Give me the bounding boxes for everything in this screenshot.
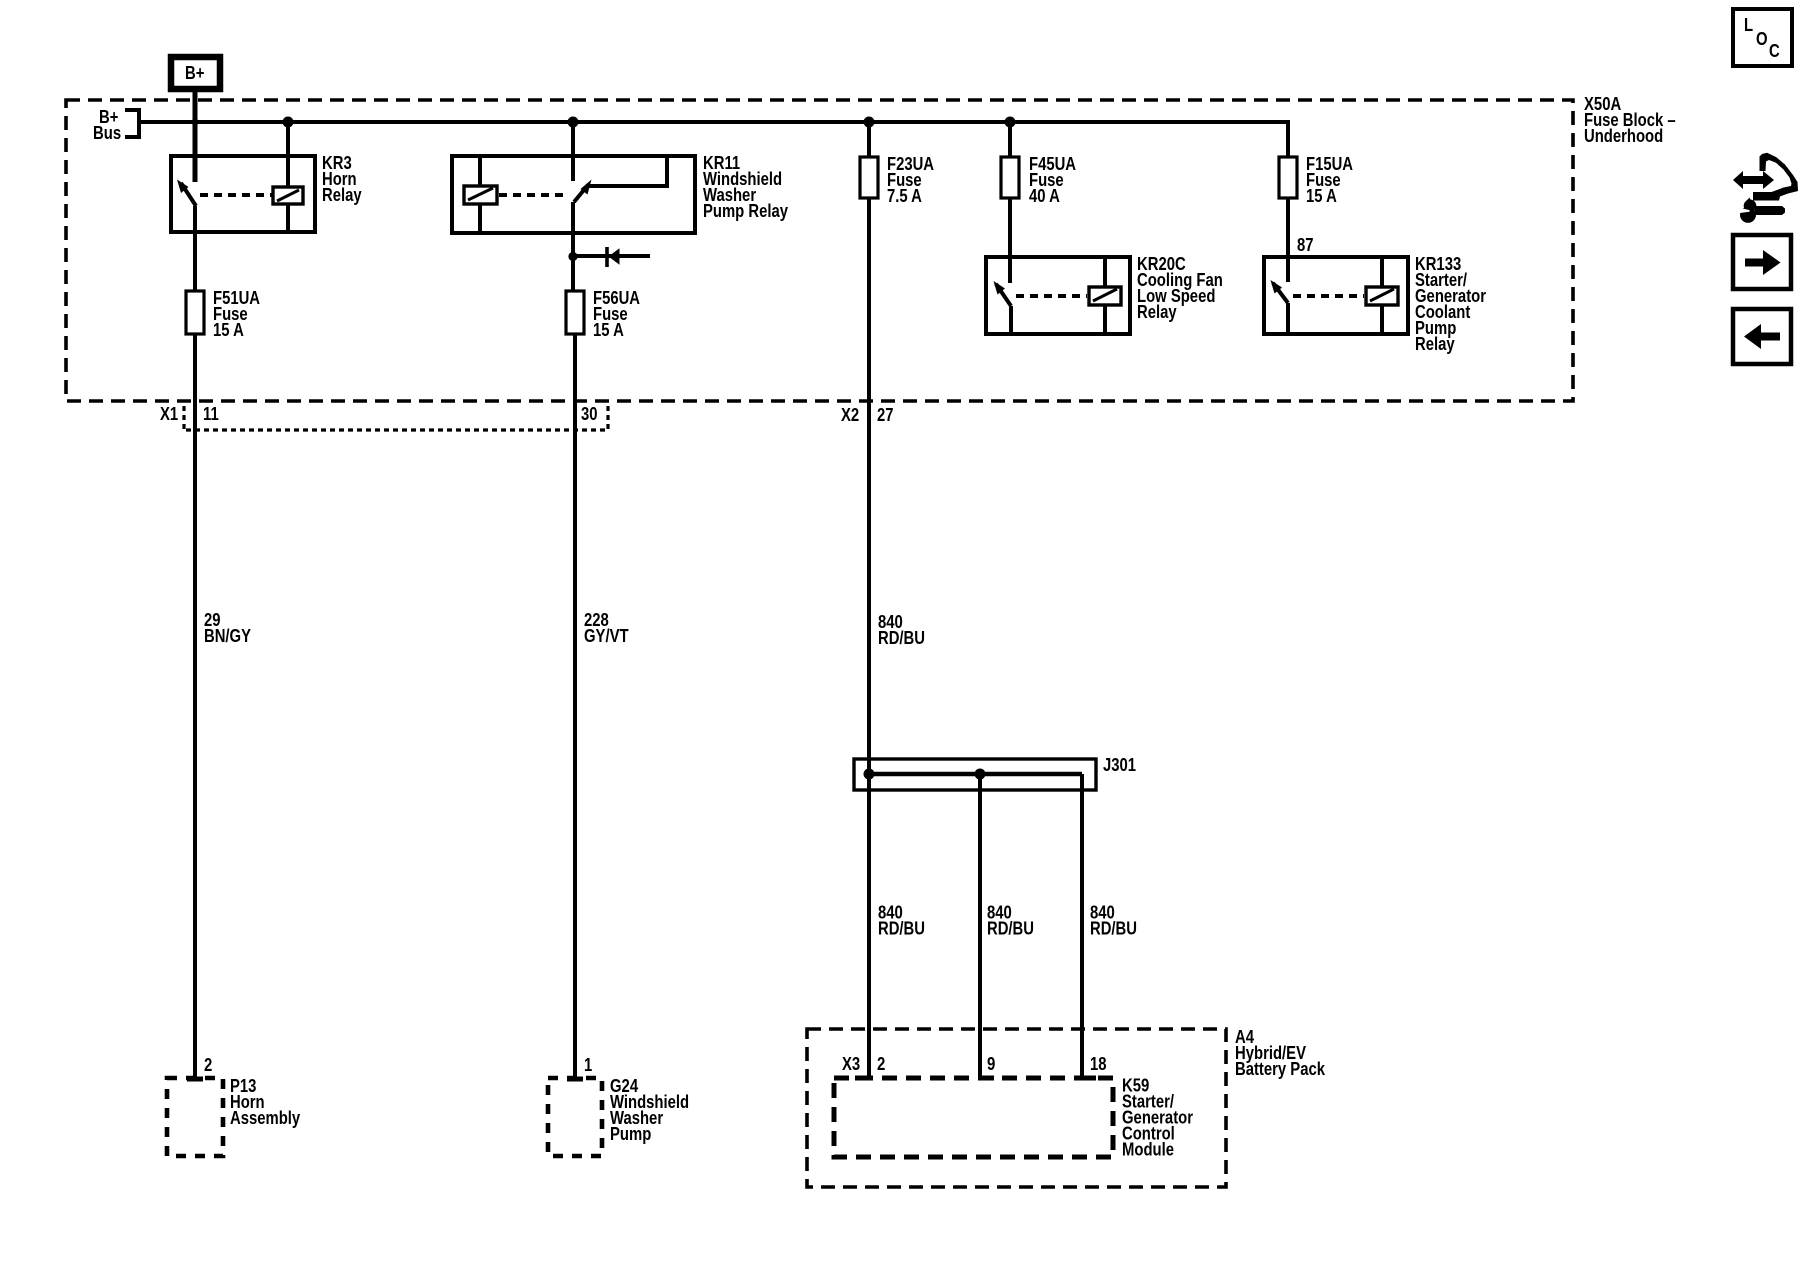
fuse F23UA bbox=[860, 157, 878, 198]
svg-text:GY/VT: GY/VT bbox=[584, 626, 629, 646]
wire KR133 coil to box top bbox=[1380, 259, 1384, 287]
label A4 bbox=[1235, 1027, 1326, 1079]
relay KR3 switch arm bbox=[177, 180, 196, 207]
relay KR11 switch arm bbox=[574, 180, 592, 203]
relay KR11 coil bbox=[464, 186, 497, 204]
junction B+ drop x bus bbox=[192, 119, 199, 126]
relay KR133 contact dashed link bbox=[1293, 294, 1364, 298]
wire F45UA from bus bbox=[1008, 122, 1012, 157]
label KR11 bbox=[703, 153, 788, 221]
relay KR3 coil bbox=[273, 187, 303, 204]
label KR20C bbox=[1137, 254, 1223, 322]
fuse F45UA bbox=[1001, 157, 1019, 198]
svg-text:9: 9 bbox=[987, 1054, 995, 1074]
label G24 bbox=[610, 1076, 689, 1144]
label F15UA bbox=[1306, 154, 1353, 206]
label P13 bbox=[230, 1076, 300, 1128]
splice J301 internal bus bbox=[868, 772, 1082, 776]
wire KR11 switch down to diode junction and fuse F56UA bbox=[571, 202, 575, 291]
label KR133 bbox=[1415, 254, 1486, 354]
wire from B+ terminal down to KR3 switch bbox=[193, 90, 198, 182]
icon forward arrow box bbox=[1733, 235, 1791, 289]
wire end bar K59 pin 9 bbox=[980, 1076, 994, 1081]
svg-text:O: O bbox=[1756, 29, 1768, 49]
svg-text:7.5 A: 7.5 A bbox=[887, 186, 922, 206]
relay KR20C contact dashed link bbox=[1016, 294, 1087, 298]
svg-text:Assembly: Assembly bbox=[230, 1108, 300, 1128]
svg-text:L: L bbox=[1744, 15, 1753, 35]
wire KR20C coil to box bottom bbox=[1103, 305, 1107, 332]
wire 840 RD/BU from fuse F23UA to splice J301 bbox=[867, 198, 871, 774]
svg-text:15 A: 15 A bbox=[213, 320, 244, 340]
svg-text:Module: Module bbox=[1122, 1140, 1174, 1160]
A4 Hybrid/EV Battery Pack dashed box bbox=[807, 1029, 1226, 1187]
junction J301 left bbox=[864, 769, 875, 780]
wire 840 RD/BU middle to K59 pin 9 bbox=[978, 774, 982, 1078]
wire KR3 switch down to fuse F51UA bbox=[193, 206, 197, 291]
B+ power terminal box bbox=[171, 57, 220, 89]
wire KR20C switch to box bottom bbox=[1009, 306, 1013, 332]
svg-text:Battery Pack: Battery Pack bbox=[1235, 1059, 1326, 1079]
label KR3 bbox=[322, 153, 362, 205]
svg-text:2: 2 bbox=[204, 1055, 212, 1075]
svg-text:X2: X2 bbox=[841, 405, 859, 425]
wire KR11 coil to box top bbox=[478, 158, 482, 186]
svg-text:27: 27 bbox=[877, 405, 894, 425]
label K59 bbox=[1122, 1076, 1193, 1160]
relay KR133 coil bbox=[1366, 287, 1398, 305]
wire label 840 RD/BU right bbox=[1090, 903, 1137, 939]
label F56UA bbox=[593, 288, 640, 340]
junction F45UA wire bbox=[1005, 117, 1016, 128]
relay KR133 switch arm bbox=[1271, 280, 1289, 303]
connector X1 dotted run bbox=[186, 428, 608, 431]
wire label 29 BN/GY bbox=[204, 610, 251, 646]
relay KR3 contact dashed link bbox=[200, 193, 272, 197]
wire KR133 coil to box bottom bbox=[1380, 305, 1384, 332]
svg-text:B+: B+ bbox=[185, 63, 204, 83]
relay KR11 contact dashed link bbox=[499, 193, 568, 197]
component G24 Windshield Washer Pump dashed box bbox=[548, 1078, 602, 1156]
wire label 840 RD/BU left bbox=[878, 903, 925, 939]
fuse F51UA bbox=[186, 291, 204, 334]
connector X1 tick bbox=[182, 406, 185, 432]
relay KR133 box bbox=[1264, 257, 1408, 334]
svg-text:Relay: Relay bbox=[1415, 334, 1455, 354]
svg-text:Pump: Pump bbox=[610, 1124, 651, 1144]
svg-text:15 A: 15 A bbox=[1306, 186, 1337, 206]
wire KR3 coil to box bottom bbox=[286, 204, 290, 230]
X50A label bbox=[1584, 94, 1676, 146]
fuse F56UA bbox=[566, 291, 584, 334]
svg-text:RD/BU: RD/BU bbox=[878, 919, 925, 939]
B+ Bus wire bbox=[139, 122, 1288, 157]
svg-text:Bus: Bus bbox=[93, 123, 121, 143]
splice J301 box bbox=[854, 759, 1096, 790]
wire 29 BN/GY down to P13 bbox=[193, 334, 197, 1079]
connector X1 right tick bbox=[606, 406, 609, 432]
svg-text:18: 18 bbox=[1090, 1054, 1107, 1074]
wire end bar K59 pin 2 bbox=[855, 1076, 869, 1081]
svg-text:J301: J301 bbox=[1103, 755, 1136, 775]
wire F15UA to KR133 switch bbox=[1286, 198, 1290, 282]
relay KR20C box bbox=[986, 257, 1130, 334]
junction J301 middle bbox=[975, 769, 986, 780]
label F45UA bbox=[1029, 154, 1076, 206]
wire KR11 coil to box bottom bbox=[478, 204, 482, 231]
icon back arrow box bbox=[1733, 309, 1791, 364]
wire 840 RD/BU left to K59 pin 2 bbox=[867, 774, 871, 1078]
junction F23UA wire bbox=[864, 117, 875, 128]
svg-text:X3: X3 bbox=[842, 1054, 860, 1074]
svg-text:2: 2 bbox=[877, 1054, 885, 1074]
svg-text:X1: X1 bbox=[160, 404, 178, 424]
label F51UA bbox=[213, 288, 260, 340]
junction diode tap bbox=[568, 252, 577, 261]
wire KR11 switch to bus bbox=[571, 122, 575, 181]
label F23UA bbox=[887, 154, 934, 206]
B+ Bus bracket bbox=[125, 110, 139, 137]
node B+ Bus label bbox=[93, 107, 121, 143]
junction KR11 switch wire bbox=[568, 117, 579, 128]
module K59 dashed box bbox=[834, 1078, 1113, 1157]
junction KR3 coil wire bbox=[283, 117, 294, 128]
wire 840 RD/BU right to K59 pin 18 bbox=[1080, 774, 1084, 1078]
wire end bar at G24 bbox=[567, 1077, 583, 1082]
svg-text:RD/BU: RD/BU bbox=[878, 628, 925, 648]
wire KR3 coil to bus bbox=[286, 122, 290, 187]
wire F45UA to KR20C switch bbox=[1008, 198, 1012, 283]
wire KR20C coil to box top bbox=[1103, 259, 1107, 287]
svg-text:RD/BU: RD/BU bbox=[987, 919, 1034, 939]
wire end bar at P13 bbox=[187, 1077, 203, 1082]
relay KR20C coil bbox=[1089, 287, 1121, 305]
icon vehicle data arrow with wrench bbox=[1733, 153, 1798, 223]
svg-text:Relay: Relay bbox=[322, 185, 362, 205]
wire 228 GY/VT down to G24 bbox=[573, 334, 577, 1079]
wire label 228 GY/VT bbox=[584, 610, 629, 646]
svg-text:11: 11 bbox=[203, 404, 219, 424]
svg-text:Underhood: Underhood bbox=[1584, 126, 1663, 146]
wire end bar K59 pin 18 bbox=[1082, 1076, 1096, 1081]
svg-text:RD/BU: RD/BU bbox=[1090, 919, 1137, 939]
relay KR11 box bbox=[452, 156, 695, 233]
relay KR20C switch arm bbox=[994, 281, 1012, 306]
svg-text:Relay: Relay bbox=[1137, 302, 1177, 322]
svg-text:87: 87 bbox=[1297, 235, 1314, 255]
svg-text:30: 30 bbox=[581, 404, 598, 424]
fuse F15UA bbox=[1279, 157, 1297, 198]
svg-text:40 A: 40 A bbox=[1029, 186, 1060, 206]
svg-text:BN/GY: BN/GY bbox=[204, 626, 251, 646]
diode bbox=[573, 247, 650, 267]
relay KR3 box bbox=[171, 156, 315, 232]
wire F23UA from bus bbox=[867, 122, 871, 157]
X50A fuse block dashed box bbox=[66, 100, 1573, 401]
component P13 Horn Assembly dashed box bbox=[167, 1078, 223, 1156]
wire label 840 RD/BU middle bbox=[987, 903, 1034, 939]
wire KR133 switch to box bottom bbox=[1286, 303, 1290, 332]
relay KR11 NO contact line to box top bbox=[589, 158, 667, 186]
svg-text:1: 1 bbox=[584, 1055, 592, 1075]
svg-text:15 A: 15 A bbox=[593, 320, 624, 340]
svg-text:Pump Relay: Pump Relay bbox=[703, 201, 788, 221]
wire label 840 RD/BU bbox=[878, 612, 925, 648]
svg-text:C: C bbox=[1769, 41, 1780, 61]
icon LOC box bbox=[1733, 9, 1792, 66]
